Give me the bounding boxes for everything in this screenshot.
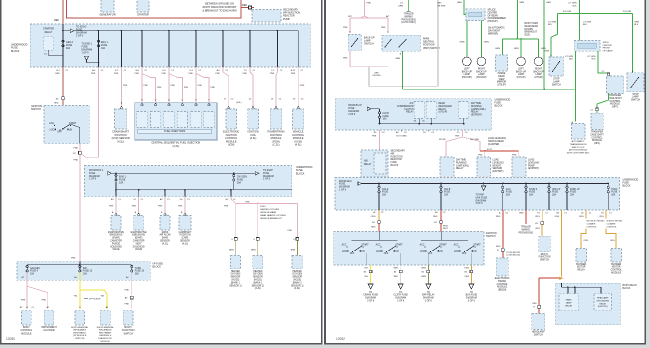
svg-text:TO: TO — [399, 292, 402, 294]
svg-text:CASE SHIFT: CASE SHIFT — [590, 133, 604, 136]
bus wire IP block — [27, 264, 132, 266]
svg-text:INJECTION: INJECTION — [391, 156, 403, 158]
svg-text:GAUGES: GAUGES — [30, 267, 40, 270]
wire GRN BLK 2door branch — [632, 13, 634, 73]
svg-text:BLOCK: BLOCK — [153, 266, 162, 269]
wire RED to secondary air pump — [241, 7, 248, 9]
svg-text:AUX: AUX — [506, 188, 511, 191]
svg-text:LOAD: LOAD — [528, 159, 535, 162]
fuse GAUGES 4 10A — [26, 265, 28, 267]
svg-text:HEATED: HEATED — [293, 270, 302, 273]
svg-text:PNK: PNK — [132, 205, 137, 207]
svg-text:BRN: BRN — [422, 268, 427, 270]
right page sheet — [325, 0, 645, 344]
svg-text:HEADLAMP: HEADLAMP — [597, 297, 609, 300]
secondary air injection reactor pump — [252, 10, 281, 23]
svg-text:LOCK: LOCK — [49, 130, 56, 132]
svg-text:CONTROL: CONTROL — [497, 284, 509, 286]
svg-text:EMISSIONS: EMISSIONS — [110, 235, 123, 237]
EVAP canister vent solenoid valve — [134, 216, 144, 231]
svg-text:M/T: M/T — [348, 16, 352, 18]
svg-text:RUN: RUN — [360, 251, 365, 253]
svg-text:OXYGEN: OXYGEN — [230, 274, 240, 276]
svg-text:LAMP: LAMP — [553, 80, 560, 83]
svg-text:2 OF 6: 2 OF 6 — [348, 114, 356, 116]
svg-text:DIAGRAM: DIAGRAM — [348, 110, 359, 113]
svg-text:PNK: PNK — [367, 3, 372, 5]
wire PNK to HO2S bank1 sensor2 — [257, 203, 259, 205]
svg-text:SUPPLEMENTAL: SUPPLEMENTAL — [97, 326, 115, 329]
svg-text:BRN: BRN — [291, 250, 296, 252]
svg-text:CAMSHAFT: CAMSHAFT — [179, 231, 192, 234]
svg-text:FUSE: FUSE — [101, 45, 108, 47]
svg-text:UNK LP: UNK LP — [552, 189, 561, 191]
svg-text:(PICKUP): (PICKUP) — [476, 77, 486, 79]
svg-text:& BREAKOUT TO ENG HARN: & BREAKOUT TO ENG HARN — [202, 9, 236, 12]
svg-text:PNK: PNK — [211, 87, 216, 89]
svg-text:BACK-UP: BACK-UP — [533, 70, 544, 73]
fuel injector 5 — [195, 103, 198, 105]
svg-text:RED: RED — [371, 227, 376, 229]
connector heated oxygen wire — [256, 238, 259, 241]
generator/starter ground distribution box — [67, 0, 242, 18]
wire GRN to inside rear view mirror — [501, 39, 503, 55]
svg-text:EVAPORATIVE: EVAPORATIVE — [131, 231, 147, 234]
svg-text:PNK: PNK — [144, 85, 149, 87]
svg-text:E172: E172 — [487, 149, 493, 151]
svg-text:(W FLOOR SHIFT A/T): (W FLOOR SHIFT A/T) — [567, 152, 590, 155]
svg-text:TRAILER: TRAILER — [521, 226, 531, 229]
fuse SIR 10 10A — [79, 265, 81, 267]
svg-text:L/T GRN: L/T GRN — [548, 22, 557, 24]
svg-text:C2 (W 6B/C01): C2 (W 6B/C01) — [506, 255, 520, 257]
wire PNK to load leveling pump — [518, 151, 520, 157]
svg-text:LOCK: LOCK — [454, 251, 461, 253]
svg-text:1 OF 6: 1 OF 6 — [89, 179, 97, 181]
svg-text:(EVAP): (EVAP) — [112, 237, 120, 240]
connector heated oxygen wire — [296, 238, 299, 241]
svg-text:E150: E150 — [260, 206, 266, 208]
svg-text:DIAGRAM: DIAGRAM — [89, 175, 100, 178]
svg-text:FUSE: FUSE — [263, 173, 270, 175]
svg-text:BRN: BRN — [229, 250, 234, 252]
svg-text:OXYGEN: OXYGEN — [253, 274, 263, 276]
svg-text:FUSE: FUSE — [611, 192, 618, 194]
svg-text:HARN & REAR: HARN & REAR — [488, 140, 504, 143]
wire PNK to PNP switch — [387, 18, 389, 33]
svg-text:PNK: PNK — [123, 85, 128, 87]
svg-text:SWITCH: SWITCH — [364, 43, 374, 46]
svg-text:20A: 20A — [237, 182, 242, 185]
svg-text:NEAR REAR: NEAR REAR — [525, 25, 539, 28]
underhood fuse block — [30, 24, 310, 67]
svg-text:2 DOOR: 2 DOOR — [623, 11, 632, 13]
svg-text:PNK: PNK — [372, 136, 377, 138]
svg-text:MIRROR: MIRROR — [497, 82, 507, 84]
svg-text:IGN E: IGN E — [382, 189, 389, 191]
svg-text:BRN: BRN — [422, 276, 427, 278]
svg-text:SENSOR: SENSOR — [253, 277, 263, 279]
svg-text:SENSOR: SENSOR — [160, 241, 170, 243]
svg-text:PNK: PNK — [216, 73, 221, 75]
svg-text:4 DOOR: 4 DOOR — [563, 11, 572, 13]
svg-text:SENSOR: SENSOR — [180, 241, 190, 243]
svg-text:PNK: PNK — [184, 87, 189, 89]
svg-text:HEATED: HEATED — [231, 270, 240, 273]
svg-text:REAR HEATED OXYGEN: REAR HEATED OXYGEN — [260, 214, 286, 217]
svg-text:GRN: GRN — [519, 2, 524, 4]
svg-text:PNK: PNK — [125, 303, 130, 305]
svg-text:RED: RED — [242, 4, 247, 7]
wire PNK to PCM — [276, 67, 278, 106]
svg-text:FROM B/U-P: FROM B/U-P — [348, 105, 362, 107]
svg-text:CASE SHIFT: CASE SHIFT — [608, 97, 622, 100]
svg-text:FUSE: FUSE — [82, 47, 89, 49]
ignition switch right page — [334, 231, 484, 265]
svg-text:ELECTRONIC: ELECTRONIC — [495, 278, 510, 280]
fuel injector 3 — [168, 103, 171, 105]
wire PNK to EVAP purge solenoid — [115, 197, 117, 214]
svg-text:W DRL: W DRL — [439, 139, 447, 141]
svg-text:PNK: PNK — [198, 85, 203, 87]
svg-text:PNK: PNK — [42, 299, 47, 301]
note IP pickup — [84, 298, 88, 300]
svg-text:LOAD LEVELING: LOAD LEVELING — [488, 137, 506, 140]
wire GRN BLK to shift lock feed — [574, 51, 576, 121]
svg-text:CENTER: CENTER — [603, 45, 612, 47]
wire RED load leveling — [480, 150, 519, 152]
svg-text:LAMP: LAMP — [518, 73, 525, 76]
svg-text:CLUSTER: CLUSTER — [43, 329, 54, 332]
svg-text:LAMP: LAMP — [535, 73, 542, 76]
svg-text:GRN: GRN — [484, 41, 489, 43]
svg-text:FUSE: FUSE — [391, 162, 398, 164]
svg-text:PNK: PNK — [291, 73, 296, 75]
svg-text:SWITCH: SWITCH — [534, 334, 543, 336]
left backup lamp util — [517, 57, 526, 66]
svg-text:RED: RED — [55, 73, 60, 75]
wire PNK backup feed — [364, 0, 366, 16]
svg-text:E155: E155 — [525, 35, 531, 37]
svg-text:CENTER: CENTER — [488, 12, 498, 14]
svg-text:PNK: PNK — [158, 205, 163, 207]
svg-text:30A: 30A — [529, 194, 534, 197]
svg-text:GRN: GRN — [634, 22, 639, 24]
daytime running lamp relay lower — [440, 157, 454, 176]
svg-text:ORG: ORG — [579, 216, 584, 218]
svg-text:LAMP: LAMP — [478, 73, 485, 76]
svg-text:DIAGRAM: DIAGRAM — [76, 32, 87, 35]
svg-text:SWITCH): SWITCH) — [75, 338, 85, 340]
wire PNK to instrument cluster — [27, 286, 48, 309]
svg-text:MODULE: MODULE — [497, 287, 507, 289]
svg-text:RUN: RUN — [438, 251, 443, 253]
multifunction switch right page — [539, 236, 550, 252]
connector heated oxygen wire — [234, 238, 237, 241]
svg-text:BACK-UP: BACK-UP — [476, 70, 487, 73]
generator G1 — [101, 0, 114, 12]
svg-text:(EXPORT): (EXPORT) — [493, 171, 504, 173]
svg-text:BOA FUSE: BOA FUSE — [466, 294, 478, 297]
svg-text:SENSOR 1): SENSOR 1) — [291, 285, 304, 287]
svg-text:ORG: ORG — [535, 228, 540, 230]
svg-text:SENSOR 1): SENSOR 1) — [229, 285, 242, 287]
svg-text:VALVE: VALVE — [112, 248, 120, 251]
svg-text:TRANSMISSION: TRANSMISSION — [570, 143, 587, 146]
svg-text:LOCK: LOCK — [342, 251, 349, 253]
svg-text:GENERATOR: GENERATOR — [99, 13, 115, 17]
wire GRN to left backup lamp pickup — [466, 21, 468, 58]
wire GRN BLK to stop lamp switch 4door — [551, 13, 557, 57]
bus wire box2 — [111, 172, 255, 174]
svg-text:GRY: GRY — [437, 3, 442, 5]
svg-text:PNK: PNK — [343, 27, 348, 29]
svg-text:RUNNING: RUNNING — [471, 106, 482, 108]
svg-text:FUSE 10: FUSE 10 — [83, 271, 93, 273]
svg-text:RED: RED — [433, 216, 438, 218]
wire PNK to HO2S bank2 sensor1 — [296, 203, 298, 237]
svg-text:CANISTER: CANISTER — [110, 240, 122, 243]
svg-text:MODULE: MODULE — [610, 104, 620, 106]
svg-text:HEATED OXYGEN: HEATED OXYGEN — [260, 208, 279, 211]
svg-text:CROSSMEMBER: CROSSMEMBER — [488, 18, 507, 20]
svg-text:2 OF 6: 2 OF 6 — [76, 35, 84, 37]
svg-text:FUSE: FUSE — [383, 116, 390, 118]
wire fuse block vertical — [98, 31, 100, 67]
svg-text:TO IGN-D: TO IGN-D — [76, 27, 87, 29]
svg-text:SWITCH: SWITCH — [123, 332, 133, 335]
svg-text:FUSE: FUSE — [506, 192, 513, 194]
svg-text:STARTER: STARTER — [137, 13, 149, 17]
svg-text:CONTROL: CONTROL — [591, 137, 603, 139]
wire GRN to SPDS splice — [579, 13, 581, 40]
svg-text:PNK: PNK — [300, 85, 305, 87]
multifunction switch left page — [123, 310, 133, 325]
svg-text:RED: RED — [496, 246, 501, 248]
underhood fuse block 2 — [85, 166, 292, 197]
svg-text:SENSOR: SENSOR — [292, 277, 302, 279]
svg-text:CONTROL: CONTROL — [607, 226, 618, 228]
wire PNK rear oxygen feed — [231, 197, 298, 204]
svg-text:FUSE: FUSE — [444, 192, 451, 194]
wires PNK to fuel injectors — [141, 67, 143, 102]
svg-text:(4.3L): (4.3L) — [255, 288, 261, 290]
right margin strip — [646, 0, 650, 348]
svg-text:CRANK FUSE: CRANK FUSE — [363, 294, 378, 297]
svg-text:(4.3L): (4.3L) — [250, 137, 257, 140]
svg-text:OR PNK: OR PNK — [372, 75, 381, 77]
svg-text:W ELECTRONIC: W ELECTRONIC — [607, 221, 623, 223]
svg-text:PNK: PNK — [178, 205, 183, 207]
svg-text:MULTI-: MULTI- — [541, 254, 549, 256]
svg-text:W/O DRL: W/O DRL — [470, 139, 480, 141]
svg-text:BLOCK: BLOCK — [495, 105, 504, 108]
svg-text:BLOCK: BLOCK — [11, 50, 20, 53]
svg-text:SWITCH: SWITCH — [552, 84, 561, 86]
svg-text:PNK: PNK — [189, 73, 194, 75]
svg-text:L/T GRN: L/T GRN — [583, 22, 592, 24]
svg-text:RED: RED — [54, 102, 59, 104]
svg-text:(UTIL/P): (UTIL/P) — [517, 77, 526, 79]
svg-text:BACK-UP: BACK-UP — [462, 70, 473, 73]
svg-text:RUN: RUN — [394, 251, 399, 253]
transfer case shift control module NP1 — [591, 113, 603, 129]
svg-text:DIAGNOSTIC: DIAGNOSTIC — [98, 337, 112, 340]
svg-text:PNK: PNK — [125, 289, 130, 291]
svg-text:HEADLAMP: HEADLAMP — [532, 330, 545, 333]
svg-text:CANISTER: CANISTER — [133, 240, 145, 243]
svg-text:COMPRESSOR: COMPRESSOR — [397, 106, 414, 108]
svg-text:PUMP: PUMP — [528, 165, 535, 167]
svg-text:FUEL INJECTORS: FUEL INJECTORS — [164, 130, 185, 133]
svg-text:QUARTER: QUARTER — [488, 143, 500, 146]
fuse HVAC 30A — [607, 186, 609, 188]
svg-text:MASS: MASS — [162, 231, 169, 234]
svg-text:RELAY: RELAY — [599, 302, 606, 305]
svg-text:START: START — [473, 244, 481, 247]
svg-text:(4.3L): (4.3L) — [294, 288, 300, 290]
svg-text:ACC: ACC — [420, 244, 425, 247]
wire fuse block vertical — [168, 31, 170, 67]
svg-text:I/P PICKUP: I/P PICKUP — [89, 299, 101, 301]
svg-text:BLOWER: BLOWER — [611, 264, 621, 266]
svg-text:20A: 20A — [570, 194, 575, 197]
svg-text:ORG: ORG — [535, 216, 540, 218]
fuse AUX 30A — [502, 186, 504, 188]
wire merge backup output — [350, 66, 388, 68]
svg-text:(HO2S): (HO2S) — [254, 280, 262, 282]
svg-text:PNK: PNK — [135, 73, 140, 75]
starter M1 — [137, 0, 149, 12]
svg-text:RELAY: RELAY — [45, 31, 53, 34]
svg-text:PNK: PNK — [270, 73, 275, 75]
svg-text:RESTRAINT: RESTRAINT — [99, 331, 112, 334]
wire PNK to backup lamp switch — [349, 18, 351, 33]
svg-text:TO RAP: TO RAP — [476, 194, 485, 197]
svg-text:LAMP: LAMP — [566, 302, 572, 305]
wire PNK to height sensor — [484, 151, 486, 157]
body relay block — [555, 283, 620, 325]
svg-text:10A: 10A — [383, 118, 388, 121]
svg-text:ACC: ACC — [454, 244, 459, 247]
svg-text:START: START — [439, 244, 447, 247]
svg-text:REAR: REAR — [498, 75, 505, 78]
svg-text:RUN: RUN — [472, 251, 477, 253]
svg-text:PNK: PNK — [21, 299, 26, 301]
svg-text:30A: 30A — [611, 194, 616, 197]
svg-text:(EXPORT): (EXPORT) — [528, 168, 539, 170]
svg-text:C2 (W 4B/C02): C2 (W 4B/C02) — [506, 252, 520, 254]
arrow to RAP UNK fuse — [481, 186, 486, 191]
wire GRN BLK to transfer case module upper — [598, 51, 609, 76]
svg-text:MODULE: MODULE — [611, 273, 621, 275]
svg-text:(EVAP): (EVAP) — [135, 237, 143, 240]
svg-text:PNK: PNK — [114, 73, 119, 75]
wire PNK to VCM — [297, 67, 299, 106]
fuse IGN E 20A — [378, 186, 380, 188]
underhood fuse block right A — [335, 99, 492, 130]
svg-text:3 OF 6: 3 OF 6 — [468, 301, 476, 303]
svg-text:ACC: ACC — [49, 122, 54, 125]
svg-text:PUMP: PUMP — [283, 18, 290, 21]
svg-text:PROVISIONS: PROVISIONS — [519, 232, 534, 234]
svg-text:PARK: PARK — [566, 299, 572, 302]
svg-text:START: START — [69, 122, 77, 125]
svg-text:FUSE 4: FUSE 4 — [30, 271, 39, 273]
fuse PARK LP 20A — [566, 186, 568, 188]
svg-text:WHT: WHT — [394, 276, 399, 278]
fuse STUD 2 30A — [525, 186, 527, 188]
wire fuse block vertical — [249, 31, 251, 67]
svg-text:FUSE: FUSE — [66, 45, 73, 47]
svg-text:ENG 1: ENG 1 — [101, 42, 109, 44]
svg-text:(PNP) SWITCH: (PNP) SWITCH — [423, 47, 440, 50]
svg-text:ACC: ACC — [342, 244, 347, 247]
svg-text:(PICKUP): (PICKUP) — [488, 21, 498, 23]
svg-text:3 OF 6: 3 OF 6 — [397, 301, 405, 303]
wire PNK to ignition coil — [250, 67, 253, 106]
svg-text:PNK: PNK — [245, 201, 250, 203]
svg-text:START: START — [395, 244, 403, 247]
wire PNK below backup switch — [349, 50, 351, 66]
svg-text:FRONT: FRONT — [603, 48, 611, 50]
svg-text:FUNCTION: FUNCTION — [539, 257, 551, 259]
svg-text:MIRROR): MIRROR) — [488, 34, 498, 36]
svg-text:GRN: GRN — [395, 58, 400, 60]
svg-text:BLK: BLK — [634, 24, 639, 26]
bottom margin strip — [0, 345, 650, 348]
wire PNK to multifunction switch — [131, 272, 133, 296]
svg-text:VALVE: VALVE — [135, 248, 143, 251]
wire RED main feed — [62, 0, 64, 25]
svg-text:PNK: PNK — [71, 258, 76, 260]
svg-text:PNK: PNK — [74, 147, 79, 149]
fuel injector 4 — [181, 103, 184, 105]
svg-text:(MAF): (MAF) — [162, 237, 169, 240]
svg-text:IGN B: IGN B — [444, 189, 451, 191]
svg-text:RED: RED — [532, 303, 537, 305]
svg-text:20A: 20A — [135, 273, 140, 276]
svg-text:(HO2S): (HO2S) — [232, 280, 240, 282]
right backup lamp pickup — [477, 57, 486, 66]
svg-text:OFF: OFF — [350, 253, 355, 255]
svg-text:RAP RELAY: RAP RELAY — [422, 294, 435, 297]
svg-text:BRN: BRN — [251, 250, 256, 252]
headlamp grounding relay — [594, 294, 612, 311]
svg-text:EMISSIONS: EMISSIONS — [132, 235, 145, 237]
fuse TURN 15 20A — [131, 265, 133, 267]
svg-text:GRN: GRN — [544, 51, 549, 53]
transfer case shift control module upper — [606, 76, 623, 93]
svg-text:DIAGRAM: DIAGRAM — [365, 297, 376, 300]
heated oxygen sensor bank2 sensor1 — [292, 255, 302, 268]
svg-text:30A: 30A — [506, 194, 511, 197]
splice center of rear crossmember — [466, 9, 485, 21]
svg-text:1 OF 6: 1 OF 6 — [82, 52, 90, 54]
svg-text:(CMP): (CMP) — [182, 238, 189, 240]
svg-text:ORG: ORG — [464, 276, 469, 278]
svg-text:(EXPORT): (EXPORT) — [471, 115, 482, 117]
arrow to IGN-D fuse — [63, 30, 70, 32]
svg-text:OFF: OFF — [57, 132, 62, 134]
svg-text:(HO2S): (HO2S) — [293, 280, 301, 282]
svg-text:BLOCK: BLOCK — [623, 185, 632, 188]
svg-text:(4.3L): (4.3L) — [236, 102, 242, 104]
svg-text:SENSOR 2): SENSOR 2) — [252, 285, 265, 287]
svg-text:DAY/NIGHT: DAY/NIGHT — [488, 30, 501, 33]
svg-text:(4.3L): (4.3L) — [162, 243, 168, 245]
wire starter relay to feed — [48, 50, 50, 56]
